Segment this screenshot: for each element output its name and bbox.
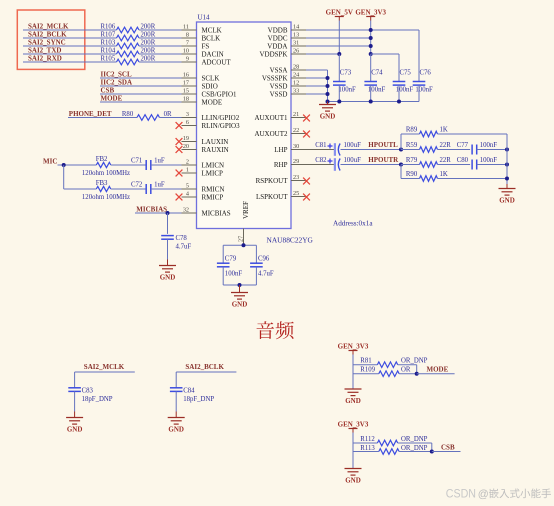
wire SAI2_BCLK left [23, 37, 117, 39]
pin 24 VSSSPK [291, 77, 306, 79]
no-connect X [303, 194, 310, 201]
wire R112 row left [353, 442, 377, 444]
pin 31 VDDA [291, 45, 306, 47]
svg-text:GEN_5V: GEN_5V [326, 9, 353, 17]
junction MICBIAS [166, 211, 170, 215]
svg-text:4.7uF: 4.7uF [176, 244, 192, 251]
pin 4 RMICP [182, 196, 197, 198]
junction VREF gnd [238, 283, 242, 287]
wire VDDB row [306, 29, 419, 31]
junction VSS bus gnd [326, 100, 330, 104]
wire C78 to ground [167, 239, 169, 259]
pin 33 VSSD [291, 93, 306, 95]
svg-text:GND: GND [168, 425, 184, 433]
svg-text:RMICN: RMICN [202, 186, 225, 194]
svg-text:13: 13 [293, 32, 299, 39]
svg-text:R107: R107 [101, 32, 116, 39]
wire SAI2_BCLK [176, 371, 236, 373]
svg-text:SDIO: SDIO [202, 83, 218, 91]
svg-text:GND: GND [499, 196, 515, 204]
svg-text:C73: C73 [340, 70, 352, 77]
ground below C83 [74, 412, 76, 418]
svg-text:DACIN: DACIN [202, 51, 224, 59]
wire SAI2_TXD to pin 10 [139, 53, 182, 55]
svg-text:LAUXIN: LAUXIN [202, 138, 229, 146]
wire SAI2_SYNC to pin 7 [139, 45, 182, 47]
title text audio [257, 321, 294, 339]
wire VDDC row [306, 37, 371, 39]
wire R81 drop [416, 365, 418, 374]
wire C71 to pin 2 [151, 164, 182, 166]
junction HPOUTR [399, 163, 403, 167]
junction C80 right [505, 163, 509, 167]
svg-text:GND: GND [345, 397, 361, 405]
svg-text:18pF_DNP: 18pF_DNP [82, 396, 113, 403]
capacitor C79 100nF [217, 262, 230, 264]
svg-text:2: 2 [186, 159, 189, 166]
wire right vertical [506, 134, 508, 184]
no-connect X [303, 115, 310, 122]
svg-text:ADCOUT: ADCOUT [202, 59, 232, 67]
svg-text:C81: C81 [315, 142, 326, 149]
svg-text:16: 16 [183, 72, 189, 79]
svg-text:1uF: 1uF [154, 157, 165, 164]
svg-text:MCLK: MCLK [202, 27, 222, 35]
wire VREF bottom [223, 284, 256, 286]
svg-text:14: 14 [293, 24, 299, 31]
svg-text:R59: R59 [406, 142, 418, 149]
svg-text:1uF: 1uF [154, 181, 165, 188]
ground below C78 [167, 260, 169, 266]
svg-text:32: 32 [183, 207, 189, 214]
svg-text:OR_DNP: OR_DNP [401, 358, 428, 365]
pin 21 AUXOUT1 [291, 117, 306, 119]
wire LHP row [306, 149, 334, 151]
svg-text:17: 17 [183, 80, 189, 87]
svg-text:C83: C83 [82, 387, 94, 394]
wire VSSSPK row [306, 77, 328, 79]
svg-text:R103: R103 [101, 40, 116, 47]
pin 18 MODE [182, 101, 197, 103]
ground below bus [327, 102, 329, 105]
svg-text:RHP: RHP [274, 161, 288, 169]
svg-text:MICBIAS: MICBIAS [136, 206, 167, 214]
svg-text:C78: C78 [176, 235, 188, 242]
svg-text:4.7uF: 4.7uF [258, 271, 274, 278]
no-connect X [176, 122, 183, 129]
svg-text:PHONE_DET: PHONE_DET [69, 110, 112, 118]
svg-text:C77: C77 [457, 142, 469, 149]
capacitor C84 18pF_DNP [170, 387, 183, 389]
svg-text:SAI2_TXD: SAI2_TXD [28, 47, 61, 55]
capacitor C96 4.7uF [250, 262, 263, 264]
wire SAI2_TXD left [23, 53, 117, 55]
junction VDDC [369, 36, 373, 40]
pin 12 VSSD [291, 85, 306, 87]
wire VREF down [243, 244, 245, 246]
svg-text:NAU88C22YG: NAU88C22YG [267, 236, 314, 245]
svg-text:15: 15 [183, 88, 189, 95]
capacitor C73 100nF [338, 54, 340, 82]
wire CSB [100, 93, 182, 95]
svg-text:OR_DNP: OR_DNP [401, 445, 428, 452]
pin 15 CSB/GPIO1 [182, 93, 197, 95]
no-connect X [176, 194, 183, 201]
svg-text:MICBIAS: MICBIAS [202, 210, 231, 218]
svg-text:MODE: MODE [202, 99, 223, 107]
op-amp U14 NAU88C22YG body [197, 22, 292, 229]
wire VSSD row [306, 85, 328, 87]
svg-text:C75: C75 [400, 70, 412, 77]
svg-text:19: 19 [183, 135, 189, 142]
pin 28 VSSA [291, 69, 306, 71]
svg-text:25: 25 [293, 190, 299, 197]
svg-text:GND: GND [320, 112, 336, 120]
svg-text:R90: R90 [406, 171, 418, 178]
wire C79 branch [222, 245, 224, 263]
capacitor C83 18pF_DNP [68, 387, 81, 389]
wire R81 row left [353, 364, 377, 366]
svg-text:1K: 1K [440, 171, 448, 178]
svg-text:8: 8 [186, 32, 189, 39]
no-connect X [303, 131, 310, 138]
wire R113 row left [353, 451, 379, 453]
ground CSB block [352, 467, 354, 470]
svg-text:R89: R89 [406, 127, 418, 134]
svg-text:MODE: MODE [101, 95, 123, 103]
junction R90 right [505, 177, 509, 181]
pin 22 AUXOUT2 [291, 133, 306, 135]
svg-text:FS: FS [202, 43, 210, 51]
wire R109 row left [353, 373, 379, 375]
wire R109 right [399, 373, 417, 375]
svg-text:GND: GND [232, 300, 248, 308]
pin 30 LHP [291, 149, 306, 151]
wire MODE [417, 373, 455, 375]
junction C77 right [505, 148, 509, 152]
wire PHONE_DET [68, 117, 137, 119]
svg-text:C72: C72 [131, 181, 143, 188]
svg-text:LHP: LHP [274, 146, 287, 154]
svg-text:200R: 200R [141, 56, 156, 63]
svg-text:SAI2_BCLK: SAI2_BCLK [185, 363, 224, 371]
svg-text:100nF: 100nF [480, 157, 498, 164]
svg-text:R104: R104 [101, 48, 116, 55]
svg-text:RAUXIN: RAUXIN [202, 146, 229, 154]
svg-text:CSB/GPIO1: CSB/GPIO1 [202, 91, 238, 99]
svg-text:R113: R113 [360, 445, 375, 452]
junction HPOUTL [399, 148, 403, 152]
capacitor C74 100nF [370, 54, 372, 82]
pin 14 VDDB [291, 29, 306, 31]
svg-text:LSPKOUT: LSPKOUT [256, 193, 288, 201]
svg-text:SAI2_BCLK: SAI2_BCLK [28, 31, 67, 39]
svg-text:GND: GND [67, 425, 83, 433]
pin 9 ADCOUT [182, 61, 197, 63]
wire SAI2_RXD to pin 9 [139, 61, 182, 63]
svg-text:23: 23 [293, 174, 299, 181]
svg-text:RLIN/GPIO3: RLIN/GPIO3 [202, 122, 241, 130]
svg-text:100uF: 100uF [344, 157, 362, 164]
wire SAI2_BCLK to pin 8 [139, 37, 182, 39]
svg-text:100nF: 100nF [225, 271, 243, 278]
svg-text:200R: 200R [141, 40, 156, 47]
wire FB3 to C72 [111, 188, 146, 190]
no-connect X [176, 170, 183, 177]
junction VDDA [369, 44, 373, 48]
svg-text:30: 30 [293, 143, 299, 150]
wire GEN_3V3 to C75 [371, 53, 399, 55]
capacitor C80 100nF [438, 164, 471, 166]
svg-text:R105: R105 [101, 56, 116, 63]
wire VSSD2 row [306, 93, 328, 95]
svg-text:VDDSPK: VDDSPK [259, 51, 287, 59]
svg-text:VREF: VREF [242, 201, 250, 219]
wire MIC node [58, 164, 97, 166]
svg-text:18pF_DNP: 18pF_DNP [183, 396, 214, 403]
svg-text:GEN_3V3: GEN_3V3 [338, 421, 369, 429]
capacitor C77 100nF [438, 149, 471, 151]
ground right network [506, 184, 508, 189]
no-connect X [303, 178, 310, 185]
junction CSB [430, 450, 434, 454]
svg-text:200R: 200R [141, 24, 156, 31]
wire IIC2_SCL [100, 77, 182, 79]
svg-text:C96: C96 [258, 256, 270, 263]
wire SAI2_SYNC left [23, 45, 117, 47]
ground below C84 [175, 412, 177, 418]
pin 5 RMICN [182, 188, 197, 190]
pin 11 MCLK [182, 29, 197, 31]
wire C72 to pin 5 [151, 188, 182, 190]
pin 23 RSPKOUT [291, 180, 306, 182]
junction VDDB GEN_3V3 [369, 28, 373, 32]
svg-text:29: 29 [293, 158, 299, 165]
svg-text:0R: 0R [164, 111, 172, 118]
svg-text:SAI2_MCLK: SAI2_MCLK [84, 363, 125, 371]
svg-text:GND: GND [345, 476, 361, 484]
svg-text:MIC: MIC [43, 158, 57, 166]
wire SAI2_MCLK [75, 371, 135, 373]
svg-text:5: 5 [186, 183, 189, 190]
svg-text:VDDA: VDDA [267, 43, 287, 51]
svg-text:R109: R109 [360, 367, 375, 374]
junction bus [369, 100, 373, 104]
wire HPOUTL [341, 149, 402, 151]
svg-text:@: @ [478, 488, 489, 500]
svg-text:120ohm 100MHz: 120ohm 100MHz [82, 194, 130, 201]
svg-text:R81: R81 [360, 358, 371, 365]
capacitor C78 4.7uF [161, 235, 174, 237]
wire down to C84 [175, 372, 177, 388]
pin 10 DACIN [182, 53, 197, 55]
svg-text:SAI2_MCLK: SAI2_MCLK [28, 23, 69, 31]
svg-text:VDDC: VDDC [268, 35, 288, 43]
svg-text:20: 20 [183, 143, 189, 150]
svg-text:22: 22 [293, 127, 299, 134]
junction VREF [242, 243, 246, 247]
svg-text:R106: R106 [101, 24, 116, 31]
svg-text:C79: C79 [225, 256, 237, 263]
junction MIC node [62, 163, 66, 167]
svg-text:100nF: 100nF [396, 87, 414, 94]
svg-text:SCLK: SCLK [202, 75, 220, 83]
svg-text:CSDN: CSDN [446, 486, 476, 500]
svg-text:SAI2_SYNC: SAI2_SYNC [28, 39, 66, 47]
svg-text:GEN_3V3: GEN_3V3 [355, 9, 386, 17]
wire MIC node down [63, 165, 65, 189]
wire GEN_3V3 down to gnd CSB [352, 433, 354, 469]
svg-text:IIC2_SCL: IIC2_SCL [101, 71, 132, 79]
wire VDDA row [306, 45, 371, 47]
wire SAI2_RXD left [23, 61, 117, 63]
pin 29 RHP [291, 164, 306, 166]
svg-text:LLIN/GPIO2: LLIN/GPIO2 [202, 114, 240, 122]
svg-text:GND: GND [160, 273, 176, 281]
svg-text:33: 33 [293, 88, 299, 95]
capacitor C76 100nF [418, 30, 420, 82]
svg-text:Address:0x1a: Address:0x1a [333, 220, 373, 228]
svg-text:4: 4 [186, 191, 189, 198]
svg-text:1K: 1K [440, 127, 448, 134]
wire MICBIAS down to C78 [167, 213, 169, 234]
no-connect X [176, 138, 183, 145]
svg-text:11: 11 [183, 24, 189, 31]
wire R112 right [398, 442, 432, 444]
svg-text:200R: 200R [141, 48, 156, 55]
wire GEN_3V3 down to gnd [352, 355, 354, 389]
svg-text:C84: C84 [183, 387, 195, 394]
svg-text:28: 28 [293, 64, 299, 71]
junction MODE [415, 372, 419, 376]
svg-text:C71: C71 [131, 157, 142, 164]
capacitor C75 100nF [398, 54, 400, 82]
wire left vertical lower [400, 165, 402, 179]
wire R81 right [398, 364, 417, 366]
svg-text:200R: 200R [141, 32, 156, 39]
wire C84 to ground [175, 391, 177, 411]
svg-text:120ohm 100MHz: 120ohm 100MHz [82, 170, 130, 177]
svg-text:100nF: 100nF [415, 87, 433, 94]
pin 32 MICBIAS [182, 212, 197, 214]
svg-text:C74: C74 [371, 70, 383, 77]
wire cap ground bus [328, 101, 420, 103]
svg-text:RSPKOUT: RSPKOUT [256, 177, 289, 185]
wire down to C83 [74, 372, 76, 388]
junction VSSSPK [326, 76, 330, 80]
junction GEN_3V3 to C75 [369, 52, 373, 56]
wire R112 drop [431, 443, 433, 452]
svg-text:SAI2_RXD: SAI2_RXD [28, 55, 62, 63]
svg-text:VSSSPK: VSSSPK [262, 75, 288, 83]
svg-text:26: 26 [293, 48, 299, 55]
svg-text:LMICP: LMICP [202, 170, 224, 178]
svg-text:10: 10 [183, 48, 189, 55]
wire R80 to pin 3 [160, 117, 182, 119]
svg-text:R80: R80 [122, 111, 134, 118]
wire R113 right [399, 451, 432, 453]
svg-text:9: 9 [186, 56, 189, 63]
svg-text:HPOUTL: HPOUTL [368, 141, 398, 149]
pin 7 FS [182, 45, 197, 47]
svg-text:CSB: CSB [441, 444, 455, 452]
pin 8 BCLK [182, 37, 197, 39]
junction VSSD [326, 84, 330, 88]
svg-text:100uF: 100uF [344, 142, 362, 149]
wire MODE [100, 101, 182, 103]
svg-text:GEN_3V3: GEN_3V3 [338, 343, 369, 351]
svg-text:27: 27 [237, 236, 244, 242]
pin 1 LMICP [182, 172, 197, 174]
wire SAI2_MCLK to pin 11 [139, 29, 182, 31]
svg-text:MODE: MODE [427, 366, 449, 374]
wire VSS vertical [327, 70, 329, 102]
junction VSSD2 [326, 92, 330, 96]
junction VDDSPK GEN_5V [337, 52, 341, 56]
pin 3 LLIN/GPIO2 [182, 117, 197, 119]
ground below VREF caps [239, 285, 241, 293]
wire RHP row [306, 164, 334, 166]
svg-text:AUXOUT2: AUXOUT2 [254, 130, 288, 138]
wire FB2 to C71 [111, 164, 146, 166]
svg-text:31: 31 [293, 40, 299, 47]
svg-text:U14: U14 [198, 14, 211, 22]
svg-text:22R: 22R [440, 157, 452, 164]
svg-text:C76: C76 [420, 70, 432, 77]
svg-text:6: 6 [186, 119, 189, 126]
pin 17 SDIO [182, 85, 197, 87]
svg-text:IIC2_SDA: IIC2_SDA [101, 79, 133, 87]
no-connect X [176, 146, 183, 153]
wire left vertical upper [400, 134, 402, 150]
svg-text:VSSD: VSSD [270, 91, 288, 99]
wire C83 to ground [74, 391, 76, 411]
svg-text:3: 3 [186, 111, 189, 118]
pin 2 LMICN [182, 164, 197, 166]
svg-text:100nF: 100nF [480, 142, 498, 149]
svg-text:C80: C80 [457, 157, 469, 164]
wire C96 branch [255, 245, 257, 263]
svg-text:LMICN: LMICN [202, 162, 225, 170]
wire HPOUTR [341, 164, 402, 166]
pin 26 VDDSPK [291, 53, 306, 55]
svg-text:1: 1 [186, 167, 189, 174]
red highlight box around SAI2 net labels [17, 10, 85, 69]
wire IIC2_SDA [100, 85, 182, 87]
junction bus [337, 100, 341, 104]
svg-text:C82: C82 [315, 157, 327, 164]
svg-text:OR_DNP: OR_DNP [401, 436, 428, 443]
svg-text:CSB: CSB [101, 87, 115, 95]
svg-text:VSSD: VSSD [270, 83, 288, 91]
svg-text:VSSA: VSSA [270, 67, 288, 75]
wire VREF tee top [223, 244, 256, 246]
svg-text:RMICP: RMICP [202, 194, 224, 202]
pin 20 RAUXIN [182, 149, 197, 151]
svg-text:BCLK: BCLK [202, 35, 221, 43]
svg-text:HPOUTR: HPOUTR [368, 156, 399, 164]
pin 16 SCLK [182, 77, 197, 79]
svg-text:R112: R112 [360, 436, 375, 443]
pin 19 LAUXIN [182, 141, 197, 143]
svg-text:100nF: 100nF [338, 87, 356, 94]
svg-text:22R: 22R [440, 142, 452, 149]
svg-text:AUXOUT1: AUXOUT1 [254, 114, 288, 122]
wire MICBIAS [135, 212, 182, 214]
wire GEN_5V down [338, 21, 340, 55]
pin 13 VDDC [291, 37, 306, 39]
wire VDDSPK row [306, 53, 339, 55]
